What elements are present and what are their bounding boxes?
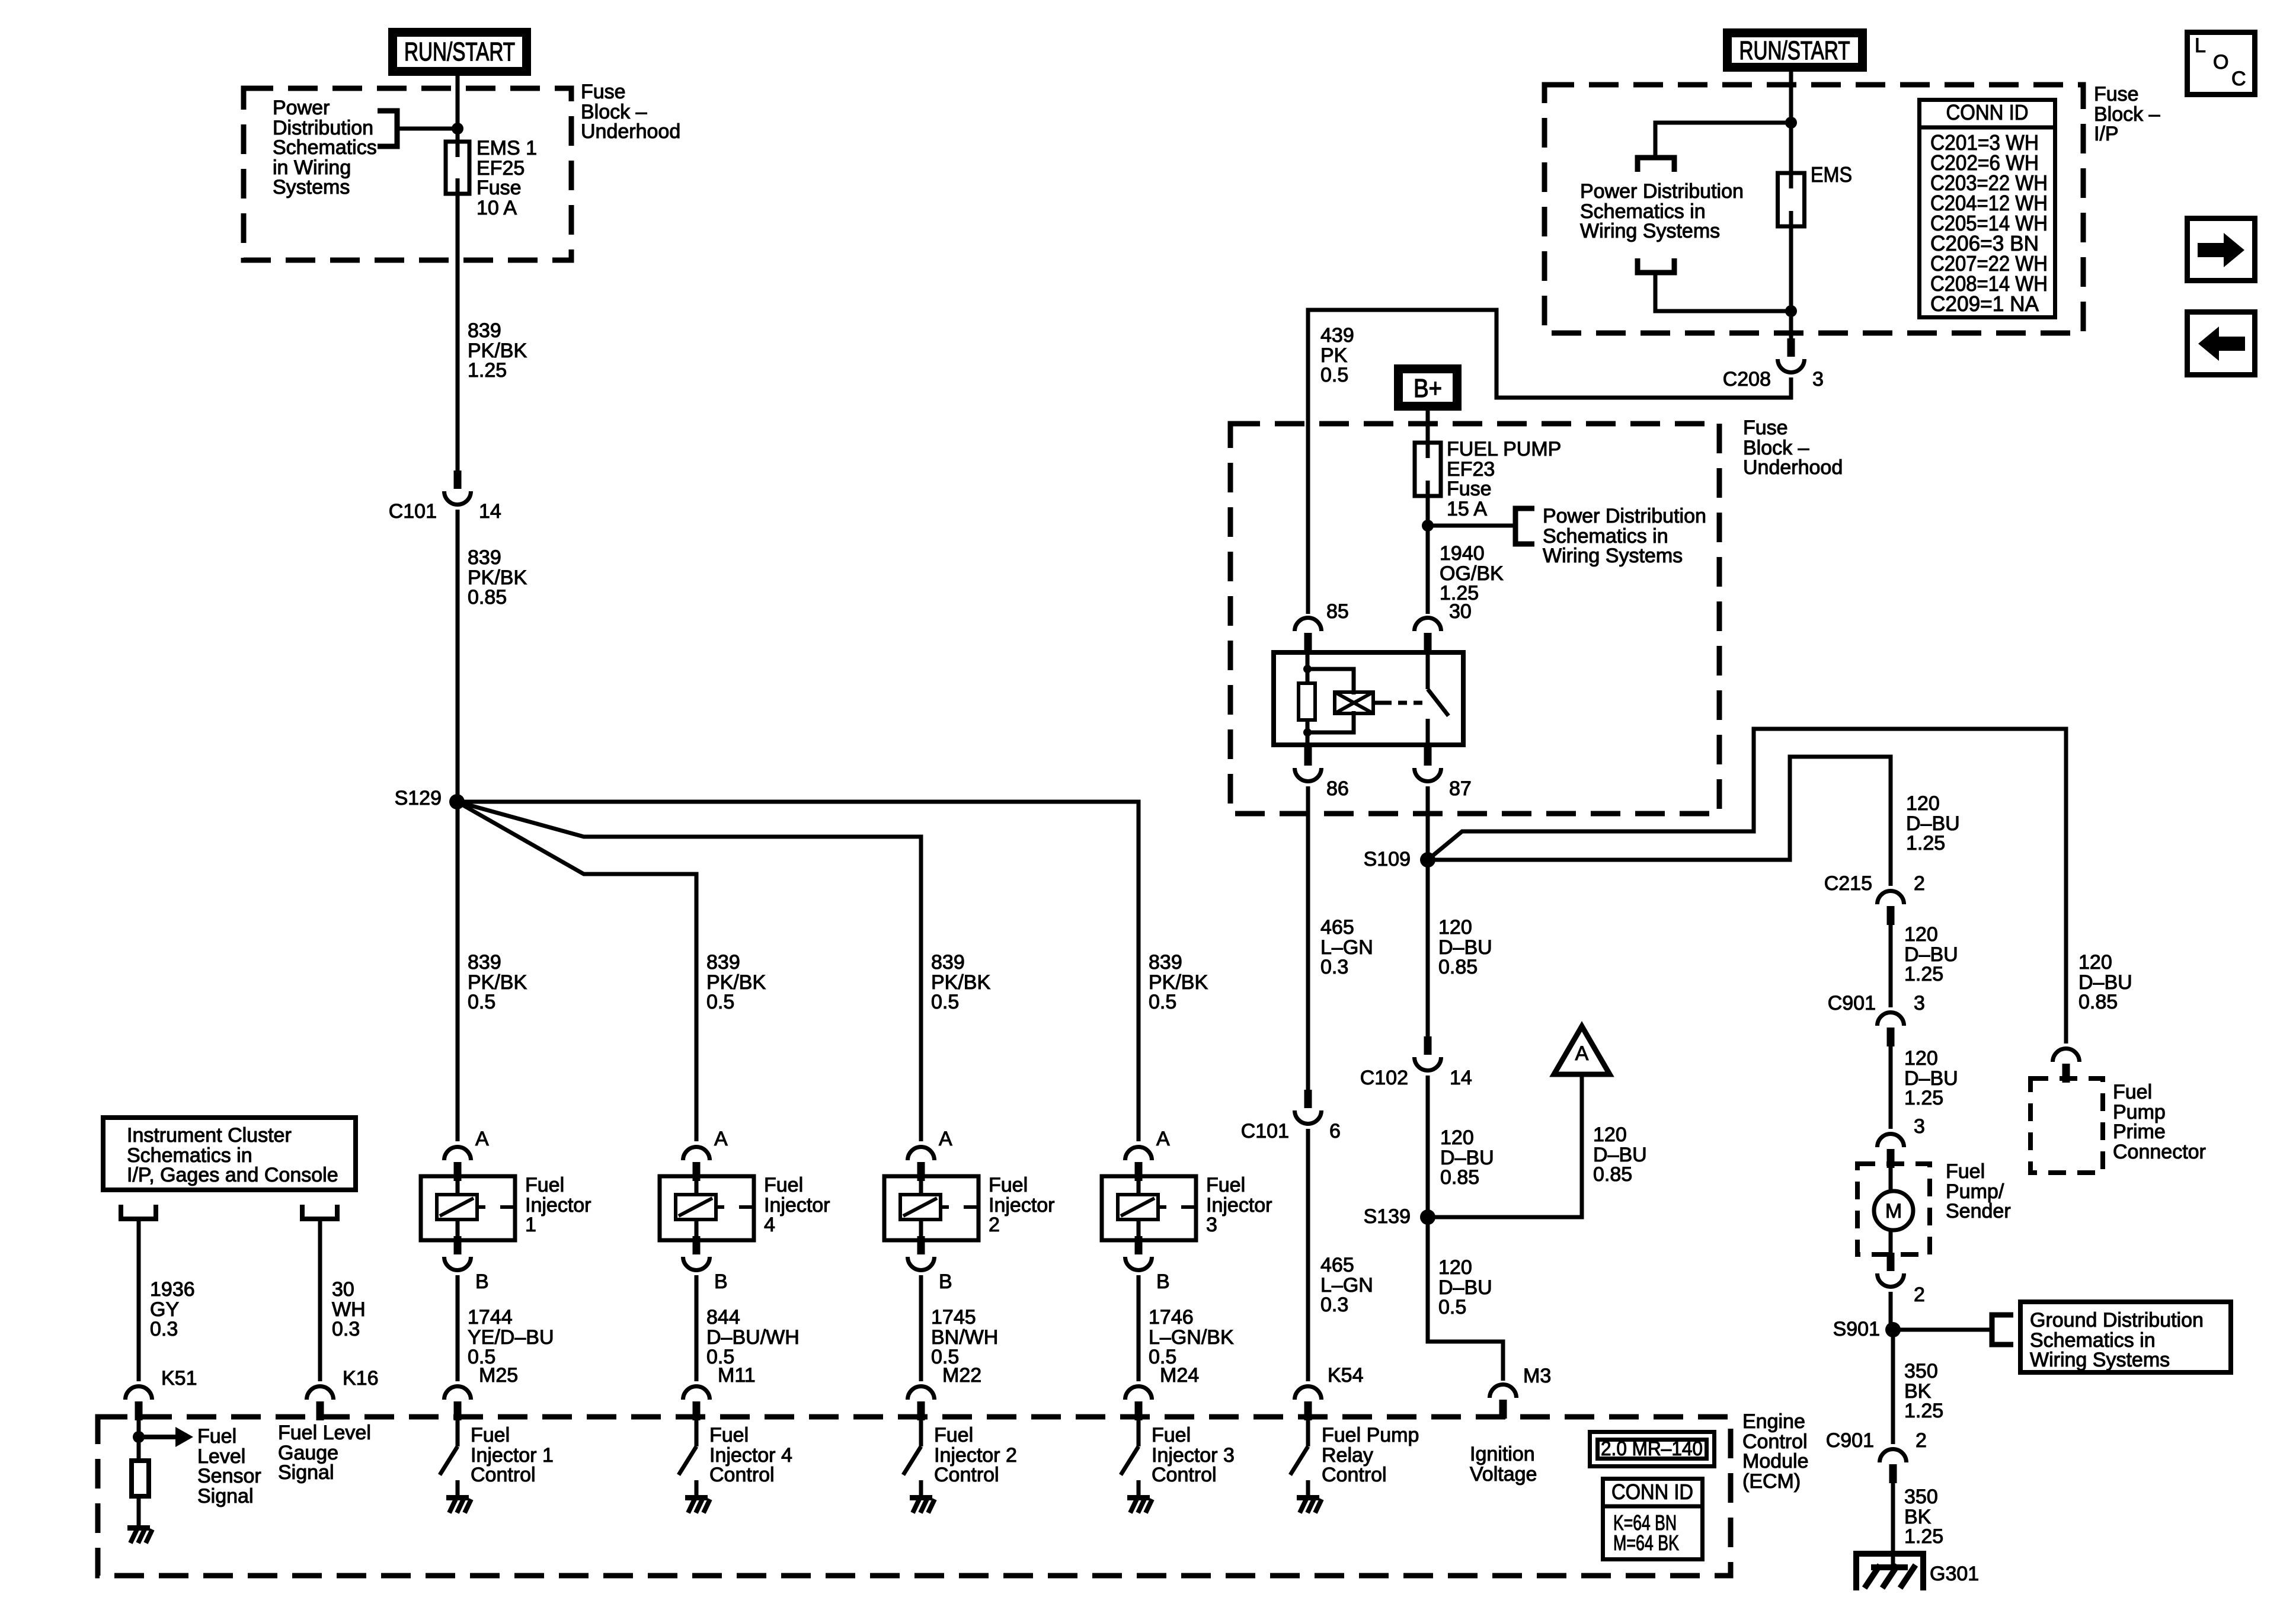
svg-text:B+: B+ [1414, 374, 1442, 403]
fuse EMS (I/P) [1778, 173, 1805, 226]
svg-text:S109: S109 [1364, 848, 1411, 870]
fuse FUEL PUMP EF23 [1415, 443, 1441, 496]
connector C101 pin 14 [445, 470, 471, 505]
svg-text:465: 465 [1320, 1254, 1354, 1276]
connector pin A injector 4 [683, 1128, 728, 1181]
connector M25 at ECM [445, 1387, 471, 1421]
junction dot fuel level sensor [133, 1420, 145, 1461]
relay fuel pump relay box [1274, 652, 1463, 745]
wire label 839 PK/BK 0.5 (injector 1) [468, 951, 527, 1013]
connector pin A injector 2 [908, 1128, 953, 1181]
connector K54 at ECM [1295, 1387, 1322, 1421]
label G301 [1930, 1563, 1979, 1585]
relay switch blade [1428, 689, 1448, 716]
svg-text:15 A: 15 A [1447, 498, 1487, 520]
label Fuel Injector 3 Control [1152, 1424, 1235, 1486]
wire S129 branch to injector 2 column [457, 802, 921, 1141]
svg-text:C101: C101 [389, 500, 437, 523]
wire label 120 D-BU 0.85 (middle) [1440, 1126, 1494, 1189]
power feed label RUN/START (right) [1728, 33, 1863, 68]
wire RUN/START to fuse EF25 [456, 76, 460, 142]
svg-text:S901: S901 [1833, 1318, 1880, 1340]
bracket under cluster box (left) [121, 1205, 156, 1219]
svg-text:1745: 1745 [931, 1306, 976, 1329]
label relay pin 86 [1326, 777, 1349, 800]
svg-text:2: 2 [1916, 1429, 1927, 1452]
dashed box fuel pump prime connector [2030, 1078, 2103, 1173]
svg-text:0.5: 0.5 [468, 991, 495, 1013]
wire EMS bottom loop [1655, 273, 1791, 311]
wire label 120 D-BU 1.25 (top) [1906, 792, 1960, 854]
label Fuel Level Gauge Signal [278, 1422, 371, 1484]
svg-text:C901: C901 [1828, 992, 1876, 1014]
wire label 1936 GY 0.3 [150, 1278, 195, 1340]
junction dot EMS top [1785, 117, 1797, 129]
svg-text:EMS: EMS [1811, 162, 1852, 187]
svg-text:120: 120 [1440, 1126, 1474, 1149]
svg-text:120: 120 [2078, 951, 2112, 974]
svg-text:30: 30 [332, 1278, 354, 1301]
svg-text:Fuse: Fuse [1447, 478, 1492, 500]
svg-text:0.3: 0.3 [1320, 1294, 1348, 1316]
label C101 14 [389, 500, 501, 523]
svg-text:Prime: Prime [2113, 1121, 2166, 1143]
wire B+ to fuse EF23 [1426, 411, 1430, 443]
wire label 465 L-GN 0.3 (upper) [1320, 916, 1373, 978]
svg-text:Control: Control [709, 1464, 775, 1486]
svg-text:Wiring Systems: Wiring Systems [2030, 1349, 2170, 1371]
wire label 120 D-BU 1.25 (mid) [1904, 923, 1958, 985]
svg-text:6: 6 [1329, 1120, 1341, 1142]
fuel injector 2 [884, 1176, 978, 1240]
relay solenoid coil box [1335, 692, 1373, 713]
svg-text:B: B [939, 1270, 952, 1293]
svg-text:Wiring Systems: Wiring Systems [1580, 220, 1720, 242]
svg-text:14: 14 [1450, 1067, 1472, 1089]
svg-text:Signal: Signal [197, 1485, 254, 1507]
svg-text:Fuel: Fuel [471, 1424, 510, 1446]
svg-text:0.85: 0.85 [2078, 991, 2118, 1013]
node S139 [1364, 1205, 1435, 1228]
bracket power distribution bottom (I/P) [1638, 258, 1674, 273]
box Instrument Cluster Schematics [103, 1118, 356, 1190]
svg-text:B: B [475, 1270, 489, 1293]
wire label 465 L-GN 0.3 (lower) [1320, 1254, 1373, 1316]
svg-text:Engine: Engine [1742, 1410, 1805, 1433]
wire C102 to S139 [1426, 1076, 1430, 1217]
wire label 839 PK/BK 1.25 [468, 319, 527, 382]
svg-text:CONN ID: CONN ID [1946, 100, 2029, 124]
svg-text:0.85: 0.85 [1438, 956, 1478, 978]
box Ground Distribution Schematics [2020, 1302, 2231, 1372]
wire EF23 tap to bracket [1428, 524, 1515, 528]
wire RUN/START junction to fuse EMS [1789, 123, 1793, 173]
wire S139 to M3 [1428, 1217, 1503, 1381]
connector pin B injector 4 [683, 1236, 728, 1293]
svg-text:4: 4 [764, 1214, 775, 1236]
wire C101 to node S129 [456, 510, 460, 802]
ground G301 [1856, 1554, 1923, 1590]
svg-text:Fuse: Fuse [2094, 83, 2139, 105]
wire label 844 D–BU/WH 0.5 [706, 1306, 800, 1368]
label Fuel Level Sensor Signal [197, 1425, 261, 1507]
label Fuel Injector 2 [989, 1174, 1055, 1236]
svg-text:Fuel Pump: Fuel Pump [1322, 1424, 1419, 1446]
svg-text:1746: 1746 [1149, 1306, 1194, 1329]
connector C901 pin 3 [1878, 1013, 1904, 1047]
box 2.0 MR-140 [1590, 1432, 1715, 1467]
svg-text:Fuel: Fuel [989, 1174, 1028, 1196]
wire pin 86 to C101 pin 6 [1306, 786, 1310, 1090]
svg-text:120: 120 [1438, 1256, 1472, 1279]
svg-text:Sensor: Sensor [197, 1465, 261, 1487]
label C901 2 [1826, 1429, 1927, 1452]
connector relay pin 30 [1415, 618, 1441, 652]
motor M fuel pump [1874, 1191, 1913, 1230]
svg-text:120: 120 [1904, 923, 1938, 946]
svg-text:2: 2 [1914, 872, 1925, 895]
connector pin A injector 1 [445, 1128, 490, 1181]
svg-text:CONN ID: CONN ID [1611, 1480, 1693, 1504]
svg-text:3: 3 [1812, 368, 1824, 391]
svg-text:FUEL PUMP: FUEL PUMP [1447, 438, 1561, 460]
svg-text:1.25: 1.25 [1904, 1525, 1943, 1548]
svg-text:C209=1 NA: C209=1 NA [1930, 292, 2039, 316]
wire label 1940 OG/BK 1.25 [1440, 542, 1504, 604]
svg-text:1744: 1744 [468, 1306, 513, 1329]
note Power Distribution Schematics (underhood) [1543, 505, 1706, 567]
svg-text:I/P: I/P [2094, 123, 2119, 145]
svg-text:1936: 1936 [150, 1278, 195, 1301]
label relay pin 87 [1449, 777, 1472, 800]
fuel injector 1 [421, 1176, 515, 1240]
connector fuel pump prime pin [2053, 1049, 2080, 1083]
connector fuel pump pin 2 [1878, 1253, 1904, 1287]
resistor fuel level sensor [132, 1461, 149, 1496]
bracket under cluster box (right) [302, 1205, 337, 1219]
fuse EMS 1 EF25 10 A [446, 142, 469, 194]
svg-text:0.85: 0.85 [468, 586, 507, 609]
wire label 30 WH 0.3 [332, 1278, 366, 1340]
power feed label RUN/START (left) [393, 33, 527, 72]
wire label 839 PK/BK 0.5 (injector 3) [1149, 951, 1208, 1013]
svg-text:C: C [2231, 68, 2246, 90]
wire S129 branch to injector 4 column [457, 802, 696, 1141]
svg-text:839: 839 [468, 546, 501, 569]
svg-text:L: L [2195, 34, 2206, 57]
label Fuel Injector 1 [525, 1174, 591, 1236]
wire RUN/START right to fuse block [1789, 72, 1793, 123]
symbol triangle A [1554, 1026, 1610, 1074]
wire S901 to ground distribution bracket [1893, 1328, 1992, 1332]
note Power Distribution Schematics in Wiring Systems (left) [273, 97, 377, 199]
svg-text:3: 3 [1206, 1214, 1217, 1236]
svg-text:1.25: 1.25 [1904, 963, 1943, 985]
switch fuel injector 3 control [1121, 1417, 1152, 1513]
svg-text:(ECM): (ECM) [1742, 1470, 1801, 1493]
node S109 [1364, 848, 1435, 870]
svg-text:A: A [475, 1128, 489, 1150]
label Fuse Block - I/P [2094, 83, 2160, 145]
label Fuel Injector 3 [1206, 1174, 1272, 1236]
svg-text:0.5: 0.5 [706, 991, 734, 1013]
svg-text:0.3: 0.3 [150, 1318, 178, 1340]
wire C901 to pump pin 3 [1889, 1041, 1893, 1129]
label Fuse Block - Underhood (left) [581, 81, 680, 143]
svg-text:87: 87 [1449, 777, 1472, 800]
svg-text:439: 439 [1320, 324, 1354, 347]
svg-text:Fuel: Fuel [1206, 1174, 1245, 1196]
svg-text:M25: M25 [479, 1364, 518, 1387]
label Fuel Pump Relay Control [1322, 1424, 1419, 1486]
svg-text:1.25: 1.25 [1906, 832, 1945, 854]
wire injector 4 to ECM [695, 1275, 699, 1381]
wire bracket to junction [397, 127, 458, 131]
svg-text:350: 350 [1904, 1486, 1938, 1508]
bracket power distribution (underhood) [1515, 508, 1534, 544]
label C208 3 [1723, 368, 1824, 391]
svg-text:EMS 1: EMS 1 [477, 137, 537, 159]
fuel injector 3 [1102, 1176, 1196, 1240]
connector K16 at ECM [307, 1387, 334, 1421]
wire label 839 PK/BK 0.5 (injector 2) [931, 951, 990, 1013]
connector relay pin 87 [1415, 747, 1441, 782]
svg-text:10 A: 10 A [477, 197, 517, 219]
svg-text:Power Distribution: Power Distribution [1580, 180, 1744, 203]
wire cluster to K16 [318, 1221, 322, 1381]
connector pin B injector 2 [908, 1236, 952, 1293]
label Engine Control Module (ECM) [1742, 1410, 1809, 1493]
wire label 120 D-BU 0.5 [1438, 1256, 1492, 1318]
fuel injector 4 [660, 1176, 754, 1240]
connector C215 pin 2 [1878, 891, 1904, 925]
junction dot EF23 tap [1422, 520, 1434, 532]
label M24 [1160, 1364, 1199, 1387]
wire S129 branch to injector 3 column [457, 802, 1139, 1141]
wire S129 to injector 1 [456, 802, 460, 1141]
wire C901 2 to G301 [1891, 1478, 1895, 1564]
svg-text:0.5: 0.5 [931, 991, 959, 1013]
svg-text:3: 3 [1914, 1115, 1925, 1138]
switch fuel injector 4 control [679, 1417, 710, 1513]
wire EF25 to C101 pin 14 [456, 194, 460, 470]
svg-text:Wiring Systems: Wiring Systems [1543, 545, 1683, 567]
symbol LOC box [2188, 33, 2255, 95]
junction dot EMS bottom [1785, 305, 1797, 317]
switch fuel pump relay control [1290, 1417, 1322, 1513]
svg-text:844: 844 [706, 1306, 740, 1329]
wire S109 to fuel pump prime connector [1428, 729, 2066, 1044]
note Power Distribution Schematics (I/P) [1580, 180, 1744, 242]
svg-text:Underhood: Underhood [1743, 456, 1843, 479]
svg-text:M=64 BK: M=64 BK [1613, 1531, 1679, 1555]
wire EF23 to relay pin 30 [1426, 496, 1430, 614]
svg-text:I/P, Gages and Console: I/P, Gages and Console [127, 1164, 338, 1186]
svg-text:O: O [2213, 51, 2228, 73]
switch fuel injector 1 control [440, 1417, 471, 1513]
wire label 1745 BN/WH 0.5 [931, 1306, 998, 1368]
svg-text:Signal: Signal [278, 1461, 334, 1484]
svg-text:0.5: 0.5 [1320, 364, 1348, 386]
svg-text:Power Distribution: Power Distribution [1543, 505, 1706, 527]
svg-text:Fuel Level: Fuel Level [278, 1422, 371, 1444]
connector M3 at ECM [1490, 1385, 1517, 1419]
label C101 6 [1241, 1120, 1341, 1142]
svg-text:14: 14 [479, 500, 501, 523]
label Fuse Block - Underhood (right) [1743, 417, 1843, 479]
svg-text:0.5: 0.5 [1438, 1296, 1466, 1318]
svg-text:120: 120 [1904, 1047, 1938, 1070]
svg-text:M11: M11 [718, 1364, 756, 1387]
svg-text:86: 86 [1326, 777, 1349, 800]
svg-text:0.3: 0.3 [332, 1318, 360, 1340]
svg-text:K16: K16 [343, 1367, 379, 1390]
wire label 350 BK 1.25 (lower) [1904, 1486, 1943, 1548]
svg-text:Fuel: Fuel [709, 1424, 749, 1446]
wire S109 to C215 [1428, 757, 1891, 886]
connector M24 at ECM [1125, 1387, 1152, 1421]
svg-text:1940: 1940 [1440, 542, 1485, 565]
wire pump pin 2 to S901 [1889, 1292, 1893, 1330]
svg-text:Control: Control [934, 1464, 999, 1486]
svg-text:RUN/START: RUN/START [404, 37, 515, 66]
svg-text:2.0 MR–140: 2.0 MR–140 [1601, 1438, 1703, 1460]
svg-text:B: B [1156, 1270, 1170, 1293]
wire label 120 D-BU 1.25 (lower) [1904, 1047, 1958, 1109]
svg-text:Underhood: Underhood [581, 120, 680, 143]
svg-text:M3: M3 [1523, 1365, 1551, 1387]
label relay pin 30 [1449, 600, 1472, 623]
svg-text:Ground Distribution: Ground Distribution [2030, 1309, 2204, 1331]
table CONN ID (I/P) [1917, 100, 2057, 318]
connector C208 pin 3 [1778, 338, 1805, 373]
wire motor to pump pin 2 [1889, 1230, 1893, 1253]
svg-text:839: 839 [468, 951, 501, 974]
label Fuel Pump Prime Connector [2113, 1081, 2206, 1163]
label M25 [479, 1364, 518, 1387]
svg-text:Sender: Sender [1946, 1200, 2011, 1222]
svg-text:1.25: 1.25 [1904, 1400, 1943, 1422]
label M11 [718, 1364, 756, 1387]
svg-text:120: 120 [1906, 792, 1940, 815]
table ECM CONN ID [1601, 1479, 1705, 1560]
symbol arrow right box [2188, 219, 2255, 281]
svg-text:2: 2 [989, 1214, 1000, 1236]
svg-text:A: A [1156, 1128, 1170, 1150]
svg-text:G301: G301 [1930, 1563, 1979, 1585]
label Fuel Injector 4 [764, 1174, 830, 1236]
relay actuator stub [1373, 701, 1383, 705]
bracket power distribution top (I/P) [1638, 158, 1674, 172]
svg-text:120: 120 [1593, 1124, 1627, 1146]
svg-text:Control: Control [471, 1464, 536, 1486]
dashed box Fuse Block - I/P [1544, 85, 2083, 333]
wire label 120 D-BU 0.85 (upper) [1438, 916, 1492, 978]
label Fuel Injector 2 Control [934, 1424, 1017, 1486]
svg-text:3: 3 [1914, 992, 1925, 1014]
relay resistor [1299, 683, 1315, 720]
svg-text:Voltage: Voltage [1470, 1463, 1537, 1486]
label Fuel Injector 4 Control [709, 1424, 792, 1486]
svg-text:A: A [714, 1128, 728, 1150]
label M3 [1523, 1365, 1551, 1387]
wire coil top link [1307, 669, 1354, 694]
wire pin 87 to S109 [1426, 786, 1430, 860]
svg-text:C101: C101 [1241, 1120, 1289, 1142]
wire S901 to C901 pin 2 [1891, 1330, 1895, 1444]
connector C901 pin 2 [1880, 1449, 1907, 1484]
svg-text:C215: C215 [1824, 872, 1872, 895]
wire label 1744 YE/D–BU 0.5 [468, 1306, 554, 1368]
svg-text:S129: S129 [395, 787, 442, 809]
label Fuel Injector 1 Control [471, 1424, 554, 1486]
wire label 439 PK 0.5 [1320, 324, 1354, 386]
dashed box Fuse Block - Underhood (left) [244, 88, 571, 260]
label K16 [343, 1367, 379, 1390]
svg-text:Fuel: Fuel [2113, 1081, 2152, 1103]
svg-text:839: 839 [1149, 951, 1182, 974]
svg-text:Systems: Systems [273, 176, 350, 199]
wire injector 1 to ECM [456, 1275, 460, 1381]
label fuse FUEL PUMP EF23 [1447, 438, 1561, 520]
svg-text:1.25: 1.25 [1904, 1087, 1943, 1109]
svg-text:Ignition: Ignition [1470, 1443, 1535, 1465]
connector pin A injector 3 [1125, 1128, 1171, 1181]
label C901 3 [1828, 992, 1925, 1014]
connector K51 at ECM [126, 1387, 152, 1421]
wire label 350 BK 1.25 (upper) [1904, 1360, 1943, 1422]
connector C101 pin 6 [1295, 1090, 1322, 1124]
svg-text:Fuel: Fuel [934, 1424, 973, 1446]
svg-text:30: 30 [1449, 600, 1472, 623]
svg-text:Fuse: Fuse [581, 81, 626, 103]
svg-text:M: M [1885, 1200, 1902, 1222]
label pump pin 3 [1914, 1115, 1925, 1138]
ground fuel level sensor [127, 1525, 152, 1543]
svg-text:Connector: Connector [2113, 1141, 2206, 1163]
wire label 120 D-BU 0.85 (triangle) [1593, 1124, 1647, 1186]
node S129 [395, 787, 465, 809]
svg-text:Fuse: Fuse [1743, 417, 1788, 439]
wire label 839 PK/BK 0.85 [468, 546, 527, 609]
svg-text:839: 839 [931, 951, 965, 974]
label K51 [161, 1367, 197, 1390]
label C102 14 [1360, 1067, 1472, 1089]
svg-text:0.85: 0.85 [1440, 1166, 1479, 1189]
connector relay pin 85 [1295, 618, 1322, 652]
connector pin B injector 1 [445, 1236, 489, 1293]
wire C208 to relay pin 85 [1308, 310, 1791, 614]
svg-text:C901: C901 [1826, 1429, 1874, 1452]
svg-text:120: 120 [1438, 916, 1472, 939]
label C215 2 [1824, 872, 1925, 895]
svg-text:A: A [939, 1128, 952, 1150]
connector C102 pin 14 [1415, 1036, 1441, 1071]
svg-text:1: 1 [525, 1214, 536, 1236]
svg-text:C102: C102 [1360, 1067, 1408, 1089]
wire S109 to C102 [1426, 860, 1430, 1046]
connector relay pin 86 [1295, 747, 1322, 782]
bracket ground distribution [1992, 1315, 2013, 1345]
wire EMS top loop [1655, 123, 1791, 158]
svg-text:Schematics: Schematics [273, 136, 377, 159]
svg-text:0.5: 0.5 [1149, 991, 1176, 1013]
label Ignition Voltage [1470, 1443, 1537, 1486]
connector pin B injector 3 [1125, 1236, 1170, 1293]
connector fuel pump pin 3 [1878, 1134, 1904, 1168]
svg-text:Module: Module [1742, 1450, 1809, 1473]
wire resistor to ground [137, 1496, 141, 1525]
